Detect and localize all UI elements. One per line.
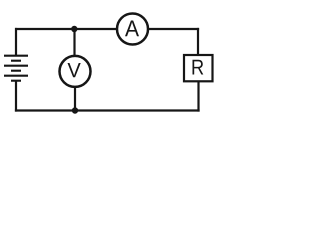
wire top-right horizontal	[148, 28, 199, 30]
wire voltmeter branch upper	[73, 29, 75, 57]
wire bottom horizontal	[15, 109, 200, 111]
wire left rail lower	[15, 81, 17, 112]
resistor R1	[184, 55, 213, 81]
wire right rail upper	[197, 28, 199, 55]
wire left rail upper	[15, 28, 17, 56]
wire right rail lower	[197, 82, 199, 112]
junction top node	[71, 26, 77, 32]
ammeter A1	[117, 14, 148, 45]
wire top-left horizontal	[15, 28, 117, 30]
wire voltmeter branch lower	[74, 87, 76, 111]
battery B1	[4, 56, 28, 81]
junction bottom node	[72, 107, 78, 113]
voltmeter V1	[60, 56, 91, 87]
